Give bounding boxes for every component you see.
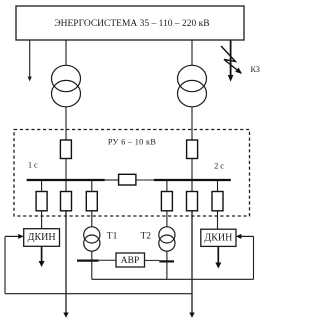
incoming breaker left [60, 140, 71, 159]
wire: bus1 to DKIN breaker [41, 181, 43, 192]
wire: transformer left to switchgear [65, 107, 67, 140]
wire: bus1 to main feeder breaker [65, 181, 67, 192]
bus-tie wire left [105, 179, 119, 181]
transformer (HV) right: two windings [178, 65, 207, 107]
svg-text:ДКИН: ДКИН [28, 232, 56, 243]
bus-tie breaker [119, 174, 136, 185]
lightning arrow (fault) [221, 46, 242, 74]
main feeder breaker left [61, 192, 72, 211]
left sense loop vertical [4, 236, 6, 293]
main feeder wire right (down) [191, 211, 193, 314]
wire: breaker to bus 2 [191, 159, 193, 180]
wire: breaker to bus 1 [65, 159, 67, 180]
AVR tap bar on T2 [159, 260, 174, 262]
power system box ЭНЕРГОСИСТЕМА [16, 6, 244, 40]
wire: T1 down to bottom link [91, 251, 93, 279]
svg-text:ДКИН: ДКИН [204, 233, 232, 244]
bus section 1 [27, 179, 105, 181]
breaker for T1 [86, 192, 97, 211]
DKIN box left [24, 229, 60, 247]
bus-tie wire right [136, 179, 154, 181]
transformer T2 (LV) windings [159, 227, 175, 251]
feeder breaker to DKIN right [212, 192, 223, 211]
main feeder breaker right [187, 192, 198, 211]
DKIN left output arrow [39, 246, 45, 267]
bottom link T1-T2-right loop [92, 278, 254, 280]
svg-text:1 с: 1 с [28, 160, 38, 169]
breaker for T2 [161, 192, 172, 211]
feeder arrow right [189, 313, 194, 318]
bus section 2 [154, 179, 231, 181]
svg-text:КЗ: КЗ [251, 65, 260, 74]
wire: bus1 to motor T1 breaker [91, 181, 93, 192]
wire: breaker to DKIN left box [41, 211, 43, 229]
main feeder wire left (down) [65, 211, 67, 314]
short-circuit feeder with arrow [228, 40, 234, 82]
AVR wire to T2 [145, 259, 160, 261]
wire: bus2 to DKIN right breaker [217, 181, 219, 192]
svg-text:РУ 6 – 10 кВ: РУ 6 – 10 кВ [108, 137, 157, 146]
wire: bus2 to motor T2 breaker [166, 181, 168, 192]
wire: T2 down to bottom link [166, 251, 168, 279]
switchgear dashed enclosure РУ 6-10 кВ [14, 130, 250, 217]
feeder arrow left [63, 313, 68, 318]
feeder breaker to DKIN left [36, 192, 47, 211]
DKIN box right [201, 229, 236, 246]
wire: system to transformer T-2 [191, 40, 193, 66]
left sense loop horizontal [5, 293, 192, 295]
incoming breaker right [187, 140, 198, 159]
svg-text:2 с: 2 с [214, 161, 224, 170]
right sense loop vertical [253, 236, 255, 279]
wire: bus2 to main feeder breaker right [191, 181, 193, 192]
wire: breaker to T1 [91, 211, 93, 227]
DKIN left input arrow wire [5, 234, 24, 239]
AVR tap bar on T1 [77, 260, 99, 262]
AVR wire to T1 [99, 259, 117, 261]
svg-text:ЭНЕРГОСИСТЕМА 35 – 110 – 220: ЭНЕРГОСИСТЕМА 35 – 110 – 220 кВ [54, 19, 209, 29]
transformer (HV) left: two windings [52, 65, 81, 107]
svg-text:Т1: Т1 [107, 231, 118, 241]
transformer T1 (LV) windings [84, 227, 100, 251]
wire: system to transformer T-1 [65, 40, 67, 66]
svg-text:Т2: Т2 [141, 231, 152, 241]
svg-text:АВР: АВР [121, 256, 139, 266]
wire: breaker to DKIN right box [217, 211, 219, 229]
DKIN right output arrow [215, 246, 221, 268]
AVR box [116, 253, 145, 267]
wire: breaker to T2 [166, 211, 168, 227]
DKIN right input arrow wire [236, 234, 254, 239]
outgoing feeder arrow left [28, 40, 32, 82]
wire: transformer right to switchgear [191, 107, 193, 140]
